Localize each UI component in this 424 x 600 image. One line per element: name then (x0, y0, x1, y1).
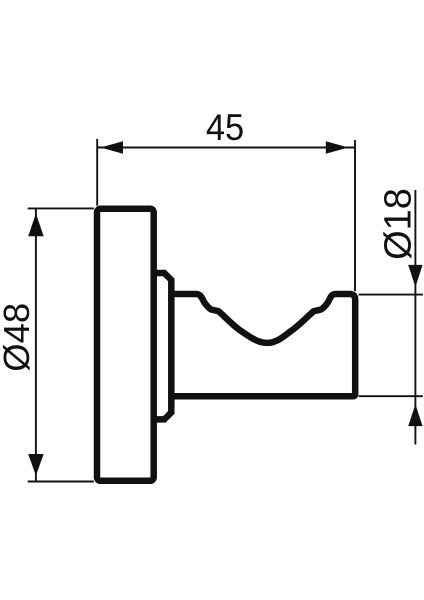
dim 45: extension line left (96, 139, 98, 206)
dim O48: top arrow (28, 214, 44, 237)
svg-text:Ø48: Ø48 (0, 303, 37, 372)
dim O18: top arrow (outside, pointing down) (408, 265, 422, 287)
dim O48: dimension line (35, 209, 37, 481)
dim O18: extension line top (359, 294, 423, 296)
dim 45: left arrow (101, 141, 124, 153)
dim 45: right arrow (326, 141, 349, 153)
dim O18: extension line bottom (359, 395, 423, 397)
svg-text:Ø18: Ø18 (378, 188, 420, 260)
dim O48: extension line top (28, 207, 94, 209)
dim O18: dimension line (414, 190, 416, 445)
dim 45: extension line right (354, 140, 356, 291)
svg-text:45: 45 (206, 107, 244, 148)
dim O48: bottom arrow (28, 454, 44, 476)
flange (154, 273, 172, 419)
hook body (171, 294, 355, 396)
wall plate (97, 209, 154, 481)
dim O48: extension line bottom (28, 481, 94, 483)
dim O18: bottom arrow (outside, pointing up) (408, 404, 422, 426)
dim 45: dimension line (97, 147, 355, 149)
